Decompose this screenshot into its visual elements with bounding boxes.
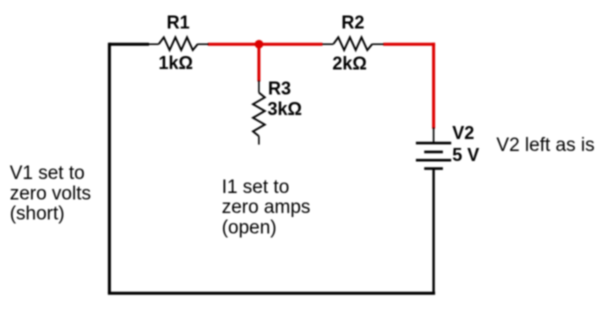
svg-text:V2 left as is: V2 left as is [496, 135, 594, 156]
svg-text:zero volts: zero volts [10, 184, 91, 205]
wire top-right corner down to battery (red) [432, 43, 435, 129]
wire top-left (black) [109, 43, 149, 46]
battery V2 [416, 128, 451, 172]
svg-text:R2: R2 [341, 13, 364, 33]
resistor R3 [253, 81, 265, 145]
wire R1 to R2 through node (red) [208, 43, 323, 46]
svg-text:2kΩ: 2kΩ [332, 54, 366, 74]
svg-text:(open): (open) [222, 218, 277, 239]
node junction dot (red) [255, 40, 264, 49]
resistor R1 [149, 37, 209, 50]
svg-text:R3: R3 [268, 78, 291, 98]
svg-text:V2: V2 [452, 123, 474, 143]
svg-text:1kΩ: 1kΩ [158, 53, 192, 73]
wire right vertical (battery bottom to bottom-right corner) [432, 169, 434, 294]
svg-text:(short): (short) [10, 204, 65, 225]
svg-text:5 V: 5 V [452, 145, 479, 165]
svg-text:I1 set to: I1 set to [222, 177, 290, 198]
svg-text:3kΩ: 3kΩ [268, 99, 302, 119]
svg-text:V1 set to: V1 set to [10, 163, 85, 184]
annotation V1 set to zero volts (short) [10, 163, 91, 224]
wire node down to R3 (red) [257, 44, 260, 81]
resistor R2 [323, 37, 384, 50]
wire R2 to top-right corner (red) [383, 43, 435, 46]
wire left vertical [108, 43, 111, 294]
svg-text:zero amps: zero amps [222, 197, 311, 218]
wire bottom [108, 292, 435, 295]
annotation I1 set to zero amps (open) [222, 177, 311, 239]
svg-text:R1: R1 [167, 13, 190, 33]
